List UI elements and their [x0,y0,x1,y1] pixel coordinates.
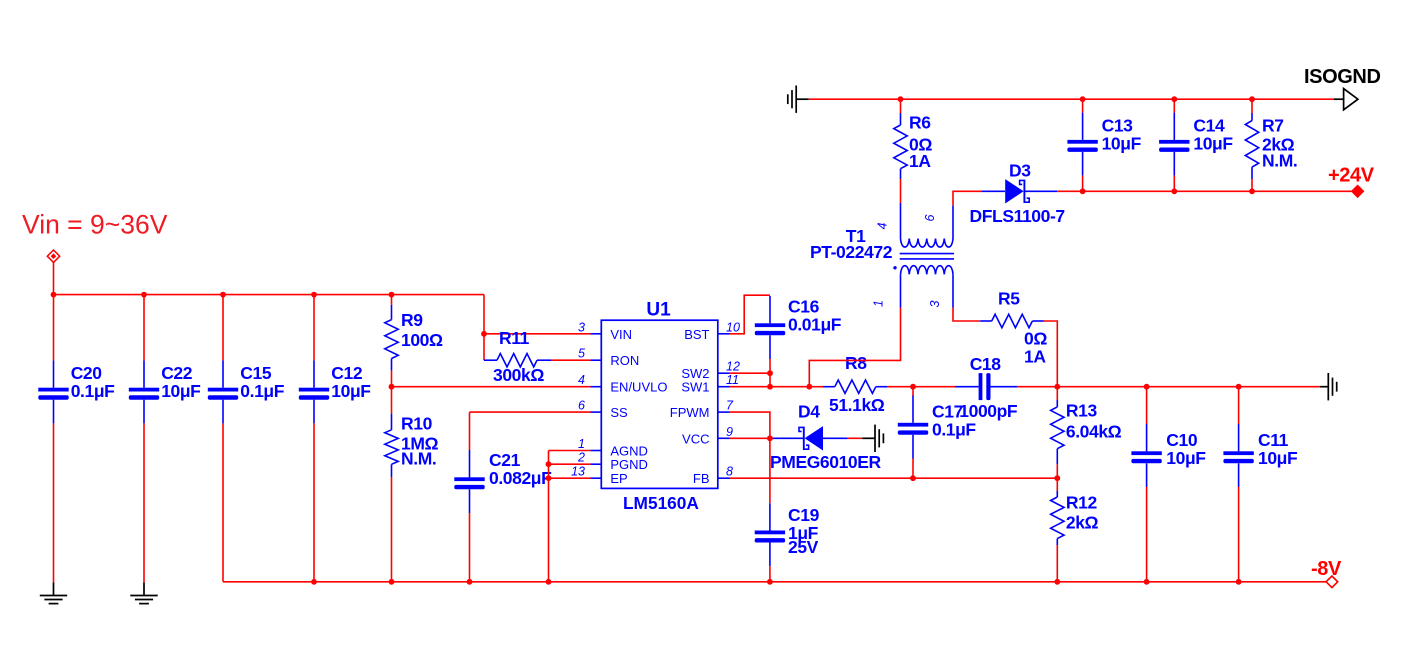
svg-text:1: 1 [872,300,886,307]
wire SS net [470,411,591,413]
wire SS drop to C21 [469,412,471,450]
wire ground return vertical [548,451,550,582]
svg-text:13: 13 [571,465,585,479]
junction bot-R10 [389,579,395,585]
junction SW1-T1 [806,384,812,390]
wire R8 to C18 [887,386,955,388]
svg-text:10μF: 10μF [1102,134,1142,154]
T1 pin numbers [872,214,943,307]
wire T1 pin6 to D3 [953,191,981,205]
svg-text:1A: 1A [909,151,931,171]
capacitor C20 [38,360,115,423]
junction mid-C11 [1236,384,1242,390]
wire VCC to C19 [769,438,771,503]
wire PGND net [549,463,591,465]
wire rail drop to VIN pin [483,295,485,334]
svg-text:0Ω: 0Ω [1024,329,1047,349]
svg-text:C12: C12 [331,363,363,383]
wire SW1 to R8 [809,386,823,388]
capacitor C15 [208,360,285,423]
svg-text:10μF: 10μF [1193,134,1233,154]
wire T1 pin3 to R5 [953,308,980,322]
svg-text:C19: C19 [788,505,820,525]
svg-text:R8: R8 [845,353,867,373]
svg-text:0.082μF: 0.082μF [489,468,552,488]
svg-text:PMEG6010ER: PMEG6010ER [770,452,882,472]
diode D4 PMEG6010ER [770,402,882,473]
svg-text:EP: EP [610,471,627,486]
junction 24-C13 [1080,188,1086,194]
svg-text:VIN: VIN [610,327,632,342]
svg-text:6.04kΩ: 6.04kΩ [1066,422,1122,442]
port +24V [1328,165,1375,199]
wire C14 top [1173,99,1175,112]
wire C15 top [222,295,224,361]
svg-text:R11: R11 [499,328,530,348]
svg-text:BST: BST [684,327,709,342]
resistor R9 [385,305,443,371]
svg-text:SW1: SW1 [681,380,709,395]
junction R8-C17-C18 [910,384,916,390]
junction rail-R9 [389,292,395,298]
wire R12 bottom [1056,545,1058,582]
svg-text:R13: R13 [1066,401,1098,421]
svg-text:Vin = 9~36V: Vin = 9~36V [22,210,168,240]
wire C20 top [53,295,55,361]
svg-text:N.M.: N.M. [401,449,436,469]
svg-text:2: 2 [577,451,585,465]
svg-text:10: 10 [726,320,740,334]
ground below C20 [40,582,67,603]
capacitor C17 [898,396,977,459]
junction FB-R13-R12 [1054,475,1060,481]
wire R10 bottom [391,477,393,582]
svg-text:7: 7 [726,399,734,413]
op-amp U1 LM5160A body [591,300,730,513]
svg-text:C22: C22 [161,363,193,383]
wire C15 bottom [222,423,224,581]
svg-text:51.1kΩ: 51.1kΩ [829,395,885,415]
port -8V [1311,558,1342,588]
resistor R13 [1051,400,1122,464]
svg-text:C16: C16 [788,297,820,317]
junction R5-R13 [1054,384,1060,390]
svg-text:8: 8 [726,465,733,479]
junction Vin-rail [51,292,57,298]
svg-text:LM5160A: LM5160A [623,493,699,513]
wire R11 to RON [551,359,591,361]
resistor R5 [980,289,1047,367]
junction bot-C11 [1236,579,1242,585]
wire Vin stub [53,262,55,294]
svg-text:EN/UVLO: EN/UVLO [610,380,667,395]
svg-text:300kΩ: 300kΩ [493,365,544,385]
svg-text:FPWM: FPWM [670,405,710,420]
ground ISOGND rail left [788,86,809,113]
svg-text:10μF: 10μF [331,381,371,401]
junction bot-C12 [311,579,317,585]
junction rail-C12 [311,292,317,298]
svg-text:C14: C14 [1193,116,1225,136]
svg-text:SS: SS [610,405,628,420]
wire C21 bottom [469,513,471,582]
capacitor C21 [454,450,552,513]
wire FPWM drop [730,412,770,438]
wire C16 to SW [769,359,771,387]
svg-text:4: 4 [876,222,890,229]
wire VCC net [730,437,770,439]
wire EP net [549,477,591,479]
wire C17 top [912,387,914,396]
capacitor C10 [1131,424,1206,487]
svg-text:C11: C11 [1258,430,1289,450]
svg-text:9: 9 [726,425,733,439]
diode D4 anode lead [770,437,804,439]
svg-text:2kΩ: 2kΩ [1066,513,1099,533]
diode D3 DFLS1100-7 [970,161,1065,227]
svg-text:12: 12 [726,360,740,374]
resistor R10 [385,414,439,478]
svg-text:1A: 1A [1024,347,1046,367]
svg-text:11: 11 [726,373,739,387]
wire bottom rail [223,581,1332,583]
svg-text:R12: R12 [1066,493,1098,513]
svg-text:0.1μF: 0.1μF [240,381,284,401]
wire C13 bottom [1082,176,1084,192]
capacitor C13 [1067,113,1141,176]
U1 pin numbers [571,320,740,478]
svg-text:C17: C17 [932,402,963,422]
junction SW1-C16 [767,384,773,390]
wire ISOGND black end [1334,98,1344,100]
resistor R8 [823,353,887,415]
ground below C22 [130,582,157,603]
svg-text:R7: R7 [1262,116,1284,136]
junction bot-C21 [467,579,473,585]
resistor R11 [484,328,551,385]
wire R7 bottom [1251,179,1253,191]
U1 pin names [610,327,709,486]
wire R9-R10 junction [391,371,393,414]
svg-text:1: 1 [578,437,585,451]
wire T1 pin4 from R6 [900,179,902,203]
svg-text:10μF: 10μF [161,381,201,401]
junction iso-R7 [1249,96,1255,102]
svg-text:100Ω: 100Ω [401,330,443,350]
transformer T1 PT-022472 [810,203,954,308]
junction 24-R7 [1249,188,1255,194]
svg-text:PGND: PGND [610,457,648,472]
svg-text:6: 6 [923,214,937,221]
svg-text:ISOGND: ISOGND [1304,66,1381,88]
svg-text:3: 3 [928,300,942,307]
wire C10 top [1146,387,1148,424]
svg-text:C18: C18 [970,354,1002,374]
wire R5 to mid rail [1044,321,1057,387]
junction PGND-junction [546,461,552,467]
junction iso-R6 [898,96,904,102]
svg-text:6: 6 [578,399,585,413]
junction R9-R10-EN [389,384,395,390]
wire D3 cathode lead [1024,190,1057,192]
junction SW2-C16 [767,370,773,376]
svg-text:+24V: +24V [1328,165,1375,187]
wire +24V rail [1057,190,1351,192]
capacitor C12 [299,360,371,423]
svg-text:10μF: 10μF [1258,448,1298,468]
wire SW2 net [730,372,771,374]
wire C11 bottom [1238,487,1240,582]
junction rail-C22 [141,292,147,298]
svg-text:RON: RON [610,353,639,368]
junction mid-C10 [1144,384,1150,390]
wire BST to C16 [730,295,771,334]
wire ISOGND rail [809,98,1334,100]
wire R12 top [1056,478,1058,491]
wire C17 bottom [912,459,914,479]
junction iso-C14 [1171,96,1177,102]
svg-text:N.M.: N.M. [1262,151,1297,171]
wire EN/UVLO net [392,386,591,388]
wire C13 top [1082,99,1084,112]
resistor R7 [1245,113,1297,179]
wire C12 bottom [313,423,315,581]
wire SW1 net [730,386,810,388]
svg-text:C15: C15 [240,363,272,383]
wire R9 top [391,295,393,305]
capacitor C19 [755,503,820,566]
resistor R6 [894,113,933,180]
capacitor C18 [955,354,1018,421]
wire C14 bottom [1173,176,1175,192]
junction bot-C10 [1144,579,1150,585]
wire D4 to ground [848,437,863,439]
svg-text:FB: FB [693,471,710,486]
wire D4 cathode lead [823,437,848,439]
junction bot-C19 [767,579,773,585]
wire C12 top [313,295,315,361]
wire C11 top [1238,387,1240,424]
diode D3 anode lead [981,190,1005,192]
wire C22 bottom [143,423,145,582]
svg-text:D4: D4 [798,402,820,422]
ground at D4 [862,425,883,452]
port Vin [47,250,59,262]
junction iso-C13 [1080,96,1086,102]
resistor R12 [1051,491,1099,545]
wire T1 pin1 to SW1 [809,308,900,387]
wire R13 bottom [1056,464,1058,478]
capacitor C14 [1159,113,1233,176]
svg-text:25V: 25V [788,537,819,557]
svg-text:PT-022472: PT-022472 [810,242,893,262]
svg-text:C21: C21 [489,450,521,470]
svg-text:4: 4 [578,373,585,387]
svg-text:R6: R6 [909,113,931,133]
junction VCC-C19 [767,435,773,441]
wire top input rail [54,294,485,296]
svg-text:0.1μF: 0.1μF [932,420,976,440]
svg-text:D3: D3 [1009,161,1031,181]
svg-text:R5: R5 [998,289,1020,309]
capacitor C16 [755,296,842,359]
junction C17-FB [910,475,916,481]
wire R6 top [900,99,902,113]
svg-text:U1: U1 [646,300,671,321]
svg-text:R10: R10 [401,414,433,434]
svg-text:0.01μF: 0.01μF [788,315,842,335]
svg-text:10μF: 10μF [1166,448,1206,468]
svg-text:C13: C13 [1102,116,1134,136]
junction 24-C14 [1171,188,1177,194]
junction VIN-R11 [481,331,487,337]
wire AGND net [549,450,591,452]
svg-text:C20: C20 [71,363,103,383]
ground secondary right [1320,373,1337,400]
capacitor C11 [1223,424,1298,487]
junction bot-R12 [1054,579,1060,585]
junction bot-gnd [546,579,552,585]
wire drop to R11 [483,334,485,360]
wire R7 top [1251,99,1253,113]
wire C20 bottom [53,423,55,582]
svg-text:R9: R9 [401,310,423,330]
wire C22 top [143,295,145,361]
junction EP-junction [546,475,552,481]
svg-text:0.1μF: 0.1μF [71,381,115,401]
wire C10 bottom [1146,487,1148,582]
svg-text:-8V: -8V [1311,558,1342,580]
svg-text:VCC: VCC [682,431,709,446]
svg-text:1000pF: 1000pF [959,401,1018,421]
wire secondary mid rail [1017,386,1320,388]
capacitor C22 [129,360,201,423]
junction rail-C15 [220,292,226,298]
svg-text:3: 3 [578,320,585,334]
svg-text:DFLS1100-7: DFLS1100-7 [970,206,1065,226]
svg-text:C10: C10 [1166,430,1198,450]
wire R13 top [1056,387,1058,400]
port ISOGND [1304,66,1381,110]
wire VIN pin net [484,333,591,335]
svg-text:5: 5 [578,347,585,361]
wire C19 bottom [769,566,771,582]
wire FB net [730,477,1058,479]
